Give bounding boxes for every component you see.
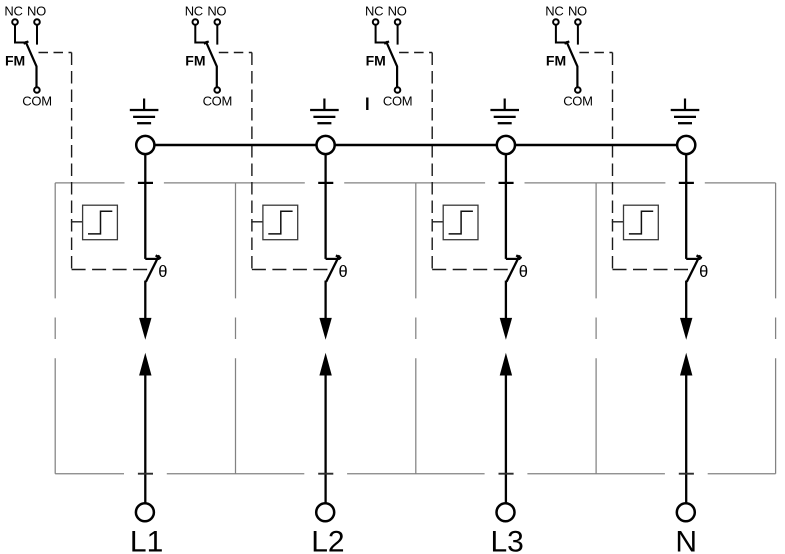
bus wire (equipotential / earth bus) [145, 144, 686, 146]
spark gap arrester F1 upper electrode [139, 318, 151, 340]
step-function symbol (U1) [88, 211, 112, 234]
svg-text:θ: θ [519, 263, 528, 281]
ground symbol (pole L3) [490, 99, 519, 124]
terminal COM (FM3) [395, 87, 401, 93]
stray tick mark I (near FM3 COM) [366, 98, 368, 111]
linkage stub to trip element U4 [612, 221, 624, 223]
trip element box U1 [83, 205, 118, 240]
enclosure crossing tick, top (pole L3) [499, 182, 514, 184]
step-function symbol (U4) [629, 211, 653, 234]
terminal NC (FM3) [373, 19, 379, 25]
enclosure crossing tick, bottom (pole L3) [499, 473, 514, 475]
thermal disconnector switch θ (pole L1) [145, 255, 161, 282]
FM remote-signalling contact FM2 [185, 4, 232, 109]
enclosure divider 4 [595, 183, 597, 474]
enclosure crossing tick, top (pole N) [679, 182, 694, 184]
changeover lever (FM4) [566, 41, 577, 87]
wire: disconnector to spark gap (pole L2) [324, 281, 326, 319]
contact tick (FM4) [565, 41, 570, 43]
svg-text:COM: COM [22, 94, 51, 109]
svg-text:θ: θ [158, 263, 167, 281]
terminal COM (FM2) [214, 87, 220, 93]
terminal NC (FM4) [553, 19, 559, 25]
svg-text:FM: FM [366, 53, 386, 69]
ground symbol (pole N) [671, 99, 700, 124]
enclosure crossing tick, bottom (pole L1) [138, 473, 153, 475]
spark gap arrester F1 lower electrode [139, 353, 151, 376]
terminal circle N [677, 503, 695, 521]
linkage stub to trip element U1 [71, 221, 83, 223]
svg-text:NC: NC [365, 4, 383, 19]
contact tick (FM1) [24, 41, 29, 43]
spark gap arrester F3 upper electrode [500, 318, 512, 340]
svg-text:NC: NC [545, 4, 563, 19]
terminal NO (FM2) [215, 19, 221, 25]
spark gap arrester F3 lower electrode [500, 353, 512, 376]
wire NO stub (FM2) [216, 25, 218, 44]
wire: node to thermal disconnector (pole L3) [505, 154, 507, 259]
wire: node to thermal disconnector (pole L1) [144, 154, 146, 259]
terminal NC (FM1) [12, 19, 18, 25]
enclosure outline (gray) [55, 183, 775, 474]
enclosure divider 2 [235, 183, 237, 474]
node circle (bus, pole L2) [317, 136, 335, 154]
spark gap arrester F2 upper electrode [319, 318, 331, 340]
terminal NO (FM3) [395, 19, 401, 25]
spark gap arrester F4 lower electrode [680, 353, 692, 376]
FM remote-signalling contact FM3 [365, 4, 412, 109]
trip element box U3 [443, 205, 478, 240]
terminal NC (FM2) [193, 19, 199, 25]
wire: disconnector to spark gap (pole N) [685, 281, 687, 319]
wire NO stub (FM4) [577, 25, 579, 44]
spark gap arrester F4 upper electrode [680, 318, 692, 340]
spark gap arrester F2 lower electrode [319, 353, 331, 376]
svg-text:NO: NO [207, 4, 226, 19]
enclosure divider 1 [54, 183, 56, 474]
enclosure bottom edge [55, 473, 775, 475]
terminal circle L2 [316, 503, 334, 521]
svg-text:NC: NC [185, 4, 203, 19]
svg-text:θ: θ [699, 263, 708, 281]
svg-text:FM: FM [185, 53, 205, 69]
node circle (bus, pole N) [677, 136, 695, 154]
svg-text:NO: NO [568, 4, 587, 19]
thermal disconnector switch θ (pole N) [686, 255, 702, 282]
svg-text:FM: FM [546, 53, 566, 69]
terminal circle L3 [497, 503, 515, 521]
terminal NO (FM1) [34, 19, 40, 25]
enclosure crossing tick, top (pole L2) [318, 182, 333, 184]
wire NC to fixed contact (FM4) [556, 25, 567, 42]
svg-text:NO: NO [27, 4, 46, 19]
node circle (bus, pole L3) [497, 136, 515, 154]
wire: spark gap to terminal L2 [324, 375, 326, 503]
linkage stub to trip element U2 [251, 221, 263, 223]
wire: spark gap to terminal N [685, 375, 687, 503]
svg-text:COM: COM [203, 94, 232, 109]
contact tick (FM2) [204, 41, 209, 43]
enclosure top edge [55, 182, 775, 184]
changeover lever (FM2) [206, 41, 217, 87]
dashed mechanical linkage FM1 to thermal disconnector [39, 53, 151, 270]
step-function symbol (U3) [449, 211, 473, 234]
step-function symbol (U2) [268, 211, 292, 234]
changeover lever (FM1) [25, 41, 36, 87]
wire: node to thermal disconnector (pole L2) [324, 154, 326, 259]
dashed mechanical linkage FM2 to thermal disconnector [219, 53, 330, 270]
trip element box U2 [263, 205, 298, 240]
wire: node to thermal disconnector (pole N) [685, 154, 687, 259]
wire NC to fixed contact (FM3) [376, 25, 387, 42]
terminal COM (FM1) [34, 87, 40, 93]
linkage stub to trip element U3 [432, 221, 444, 223]
wire: disconnector to spark gap (pole L1) [144, 281, 146, 319]
svg-text:NO: NO [388, 4, 407, 19]
ground symbol (pole L2) [310, 99, 339, 124]
svg-text:COM: COM [383, 94, 412, 109]
wire: spark gap to terminal L3 [505, 375, 507, 503]
enclosure crossing tick, bottom (pole N) [679, 473, 694, 475]
wire NC to fixed contact (FM1) [15, 25, 26, 42]
svg-text:θ: θ [339, 263, 348, 281]
wire NO stub (FM1) [36, 25, 38, 44]
ground symbol (pole L1) [130, 99, 159, 124]
svg-text:N: N [675, 526, 697, 554]
svg-text:L3: L3 [491, 526, 524, 554]
terminal COM (FM4) [575, 87, 581, 93]
FM remote-signalling contact FM4 [545, 4, 592, 109]
dashed mechanical linkage FM3 to thermal disconnector [399, 53, 511, 270]
svg-text:COM: COM [563, 94, 592, 109]
enclosure divider 5 [775, 183, 777, 474]
trip element box U4 [624, 205, 659, 240]
wire: spark gap to terminal L1 [144, 375, 146, 503]
contact tick (FM3) [384, 41, 389, 43]
wire NO stub (FM3) [397, 25, 399, 44]
thermal disconnector switch θ (pole L3) [506, 255, 522, 282]
thermal disconnector switch θ (pole L2) [326, 255, 342, 282]
terminal NO (FM4) [575, 19, 581, 25]
dashed mechanical linkage FM4 to thermal disconnector [579, 53, 691, 270]
svg-text:L1: L1 [130, 526, 163, 554]
wire NC to fixed contact (FM2) [195, 25, 206, 42]
svg-text:FM: FM [5, 53, 25, 69]
enclosure crossing tick, bottom (pole L2) [318, 473, 333, 475]
node circle (bus, pole L1) [136, 136, 154, 154]
enclosure crossing tick, top (pole L1) [138, 182, 153, 184]
svg-text:L2: L2 [311, 526, 344, 554]
terminal circle L1 [136, 503, 154, 521]
svg-text:NC: NC [4, 4, 22, 19]
enclosure divider 3 [415, 183, 417, 474]
FM remote-signalling contact FM1 [4, 4, 51, 109]
changeover lever (FM3) [386, 41, 397, 87]
wire: disconnector to spark gap (pole L3) [505, 281, 507, 319]
